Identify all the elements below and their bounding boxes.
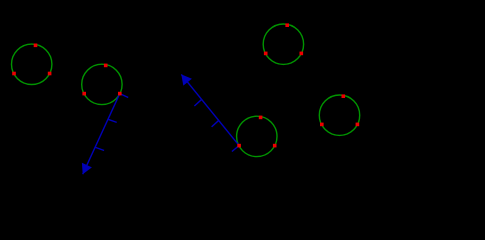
molecule M4 shell [237, 116, 277, 156]
molecule M2 shell [82, 64, 122, 104]
velocity vector V1 on M2 [82, 94, 128, 175]
molecule M1 atoms [12, 44, 51, 76]
molecule M2 atoms [82, 64, 121, 96]
molecule M3 shell [263, 24, 303, 64]
molecule M5 atoms [320, 94, 359, 126]
molecule M1 shell [12, 44, 52, 84]
molecule M4 atoms [237, 116, 276, 148]
molecule M3 atoms [264, 23, 303, 55]
velocity vector V2 on M4 [181, 74, 239, 151]
molecule M5 shell [319, 95, 359, 135]
